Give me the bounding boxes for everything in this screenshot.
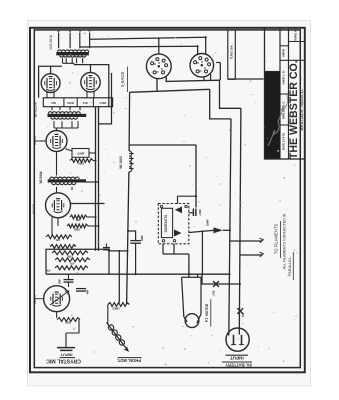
svg-text:G: G — [201, 61, 204, 63]
svg-text:8MF: 8MF — [140, 235, 144, 241]
svg-text:3W.: 3W. — [241, 312, 245, 317]
svg-text:47K: 47K — [56, 238, 61, 241]
svg-text:WI-1003: WI-1003 — [119, 156, 123, 169]
svg-text:DRWG No.: DRWG No. — [293, 27, 297, 42]
svg-text:G: G — [158, 62, 161, 64]
svg-text:PHON. MOT.: PHON. MOT. — [117, 358, 141, 363]
svg-text:D: D — [154, 63, 157, 65]
svg-text:270K: 270K — [67, 254, 73, 257]
svg-text:TUBE DIA.: TUBE DIA. — [229, 44, 233, 59]
svg-text:6AK6: 6AK6 — [31, 203, 36, 214]
svg-text:51K: 51K — [83, 101, 88, 105]
svg-text:APP’D: APP’D — [282, 49, 286, 57]
svg-text:O: O — [89, 30, 92, 32]
svg-text:WI-5944: WI-5944 — [39, 171, 43, 183]
svg-text:220K: 220K — [78, 161, 84, 165]
svg-text:6AK6: 6AK6 — [32, 135, 37, 146]
svg-text:2MF: 2MF — [59, 279, 62, 284]
svg-text:45K: 45K — [76, 218, 81, 221]
svg-text:25MF: 25MF — [206, 219, 210, 226]
svg-text:A: A — [79, 30, 82, 32]
svg-text:WO-2818: WO-2818 — [49, 35, 53, 50]
svg-text:TO FILAMENTS: TO FILAMENTS — [274, 224, 279, 255]
svg-text:5W.: 5W. — [211, 290, 215, 295]
svg-text:PARALLEL.: PARALLEL. — [288, 256, 292, 276]
svg-text:D: D — [69, 30, 72, 32]
svg-text:B: B — [58, 30, 61, 32]
svg-text:47K: 47K — [46, 269, 51, 272]
svg-text:4MF: 4MF — [87, 289, 90, 294]
svg-text:CONTACTS: CONTACTS — [164, 215, 168, 232]
svg-text:INPUT: INPUT — [230, 355, 244, 360]
svg-text:+10MF: +10MF — [77, 153, 85, 156]
svg-text:DATE 11-8-55: DATE 11-8-55 — [282, 133, 286, 150]
svg-text:CRYSTAL MIC: CRYSTAL MIC — [46, 357, 81, 363]
svg-text:47K: 47K — [70, 261, 75, 264]
svg-text:D: D — [197, 62, 200, 64]
svg-text:510R: 510R — [100, 101, 107, 105]
svg-text:510R: 510R — [67, 101, 74, 105]
svg-text:470K: 470K — [74, 227, 80, 230]
svg-text:K: K — [156, 71, 159, 73]
svg-text:WI-5011-N: WI-5011-N — [34, 102, 38, 118]
svg-text:1MEG: 1MEG — [112, 306, 119, 310]
svg-text:3809 W. LAKE ST., CHICAGO, IL: 3809 W. LAKE ST., CHICAGO, ILL. — [300, 88, 304, 131]
svg-text:47K: 47K — [51, 101, 56, 105]
svg-text:390K: 390K — [65, 321, 71, 324]
svg-text:+1MF: +1MF — [198, 209, 202, 216]
svg-text:CHKD J. H.: CHKD J. H. — [282, 70, 286, 84]
svg-text:INPUT: INPUT — [60, 352, 73, 357]
svg-text:ALL FILAMENTS CONNECTED IN: ALL FILAMENTS CONNECTED IN — [283, 213, 287, 269]
svg-text:DRN. BY G. S.: DRN. BY G. S. — [282, 101, 286, 119]
svg-text:6V. BATTERY: 6V. BATTERY — [225, 362, 252, 367]
svg-text:P.T. MOTOR: P.T. MOTOR — [205, 303, 209, 322]
svg-text:K: K — [199, 70, 202, 72]
svg-text:THE WEBSTER CO.: THE WEBSTER CO. — [288, 60, 300, 159]
